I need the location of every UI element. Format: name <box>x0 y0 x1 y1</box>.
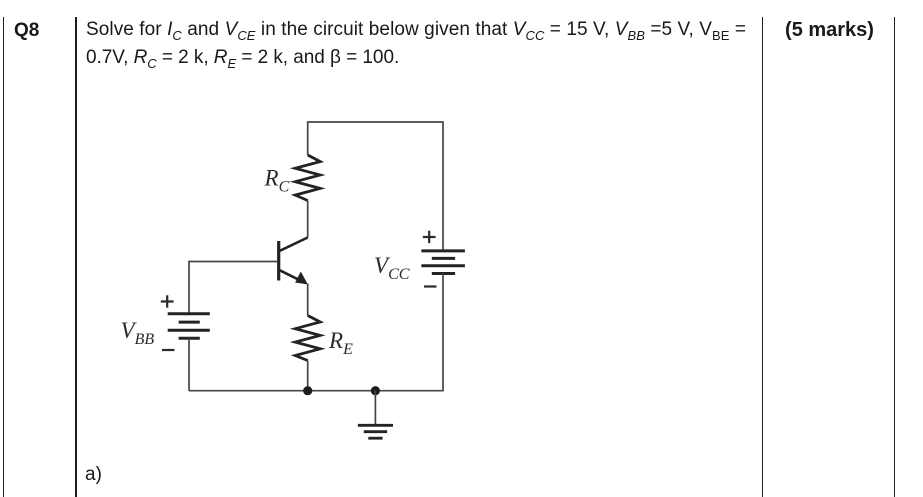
transistor Q1 emitter arrowhead <box>296 273 307 284</box>
battery VBB plus sign <box>161 295 174 307</box>
table border: rule between question column and marks column <box>762 17 764 497</box>
node: emitter/bottom-rail junction dot <box>303 386 312 395</box>
battery VCC plate 4 (short) <box>432 272 455 275</box>
battery VCC plate 3 (long) <box>421 264 465 267</box>
wire: VBB branch down to battery <box>188 261 190 314</box>
question text <box>86 16 776 72</box>
question number Q8 <box>14 17 39 45</box>
part label a) <box>85 461 102 489</box>
battery VBB minus sign <box>162 349 175 351</box>
svg-text:RC: RC <box>264 166 290 196</box>
resistor RC <box>295 155 320 201</box>
wire: top rail from collector branch to VCC <box>308 121 443 123</box>
ground bar 2 <box>364 430 387 433</box>
ground bar 1 <box>358 424 393 427</box>
battery VBB plate 1 (long) <box>168 312 210 315</box>
battery VCC plus sign <box>423 231 436 243</box>
battery VBB plate 2 (short) <box>179 321 200 324</box>
svg-text:RE: RE <box>328 328 353 358</box>
svg-text:VCC: VCC <box>374 253 410 283</box>
resistor RE <box>295 316 320 361</box>
node: ground junction dot <box>371 386 380 395</box>
table border: right outer vertical rule <box>894 17 896 497</box>
wire: VCC branch from top rail to battery <box>442 121 444 251</box>
wire: base lead to VBB branch <box>189 261 277 263</box>
wire: RE bottom to bottom rail <box>307 361 309 391</box>
transistor Q1 base bar <box>277 241 280 281</box>
wire: collector branch top (rail to RC) <box>307 121 309 155</box>
battery VCC minus sign <box>424 285 437 287</box>
wire: emitter down to RE <box>307 284 309 316</box>
svg-text:VBB: VBB <box>121 318 155 348</box>
wire: RC bottom to collector <box>307 201 309 238</box>
transistor Q1 collector lead <box>280 238 308 251</box>
table border: rule between Q8 column and question column <box>75 17 77 497</box>
wire: VBB bottom to bottom rail <box>188 338 190 390</box>
battery VBB plate 4 (short) <box>179 337 200 340</box>
ground stub wire <box>374 391 376 426</box>
marks cell <box>764 16 896 44</box>
battery VCC plate 2 (short) <box>432 257 455 260</box>
wire: VCC bottom to bottom rail <box>442 274 444 392</box>
ground bar 3 <box>368 437 382 440</box>
battery VBB plate 3 (long) <box>168 329 210 332</box>
table border: left outer vertical rule <box>3 17 5 497</box>
transistor Q1 emitter lead <box>280 270 303 282</box>
battery VCC plate 1 (long) <box>421 249 465 252</box>
wire: bottom rail <box>189 390 443 392</box>
